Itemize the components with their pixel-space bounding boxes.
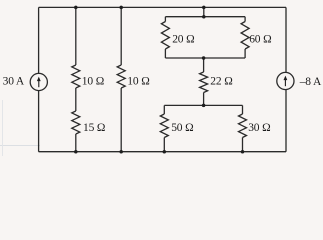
svg-text:50 Ω: 50 Ω (171, 122, 193, 134)
svg-text:10 Ω: 10 Ω (127, 76, 149, 88)
svg-text:–8 A: –8 A (299, 76, 322, 88)
svg-text:30 Ω: 30 Ω (248, 122, 270, 134)
svg-text:22 Ω: 22 Ω (210, 76, 232, 88)
svg-text:20 Ω: 20 Ω (172, 34, 194, 46)
svg-text:30 A: 30 A (3, 76, 25, 88)
svg-text:10 Ω: 10 Ω (82, 76, 104, 88)
svg-text:60 Ω: 60 Ω (249, 34, 271, 46)
svg-text:15 Ω: 15 Ω (83, 122, 105, 134)
